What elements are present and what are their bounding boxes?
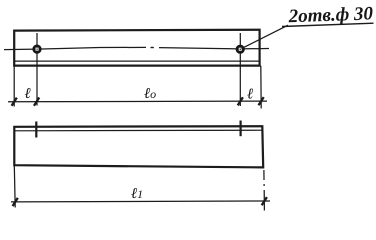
right hole vertical centerline	[239, 33, 241, 106]
leader line to hole	[242, 25, 289, 48]
left edge extension line	[13, 66, 15, 107]
svg-text:ℓ: ℓ	[24, 86, 30, 102]
beam top-view outline	[14, 30, 259, 66]
bottom dimension line	[11, 200, 270, 203]
beam side-view outline	[14, 126, 263, 167]
svg-text:ℓ: ℓ	[247, 86, 253, 102]
tick at right edge	[259, 97, 264, 105]
tick at left edge	[12, 98, 17, 106]
svg-text:2отв.ф 30: 2отв.ф 30	[287, 3, 374, 27]
right extension line (side view, broken)	[263, 170, 266, 211]
right edge extension line	[260, 66, 262, 109]
beam top-view inner bottom line	[15, 60, 259, 62]
left hole vertical centerline	[36, 33, 38, 106]
right hole	[236, 45, 245, 54]
top dimension line	[8, 100, 267, 103]
horizontal centerline (dash-dot)	[4, 47, 269, 49]
svg-text:ℓo: ℓo	[144, 86, 156, 102]
tick at right hole	[238, 97, 243, 105]
callout underline	[282, 23, 374, 26]
svg-text:ℓ1: ℓ1	[131, 186, 143, 202]
left hole	[32, 45, 41, 54]
left hole position tick (side view)	[35, 122, 37, 138]
tick at right (bottom dim)	[262, 197, 267, 205]
beam side-view inner top line	[15, 129, 262, 132]
right hole position tick (side view)	[240, 121, 242, 137]
tick at left hole	[34, 98, 39, 106]
tick at left (bottom dim)	[13, 198, 18, 206]
left extension line (side view)	[13, 165, 16, 207]
